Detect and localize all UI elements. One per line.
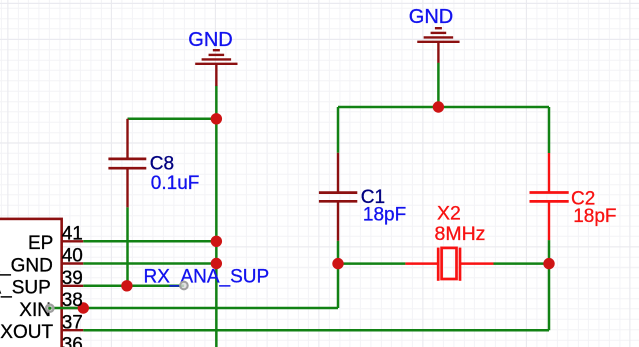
svg-text:RX_ANA_SUP: RX_ANA_SUP <box>144 267 270 288</box>
svg-text:18pF: 18pF <box>573 206 616 227</box>
svg-text:EP: EP <box>28 233 53 254</box>
svg-text:41: 41 <box>62 223 83 244</box>
svg-text:A_GND: A_GND <box>0 255 53 276</box>
svg-text:37: 37 <box>62 312 83 333</box>
svg-text:8MHz: 8MHz <box>435 223 486 245</box>
svg-text:GND: GND <box>409 6 453 28</box>
svg-text:C8: C8 <box>150 154 174 175</box>
svg-text:A_SUP: A_SUP <box>0 278 51 299</box>
svg-text:0.1uF: 0.1uF <box>151 173 200 194</box>
svg-text:40: 40 <box>62 246 83 267</box>
svg-text:X2: X2 <box>437 203 461 225</box>
svg-text:39: 39 <box>62 268 83 289</box>
svg-text:36: 36 <box>62 335 83 347</box>
svg-text:18pF: 18pF <box>363 205 406 226</box>
svg-text:XOUT: XOUT <box>0 322 53 343</box>
svg-text:38: 38 <box>62 290 83 311</box>
svg-text:GND: GND <box>188 29 232 51</box>
